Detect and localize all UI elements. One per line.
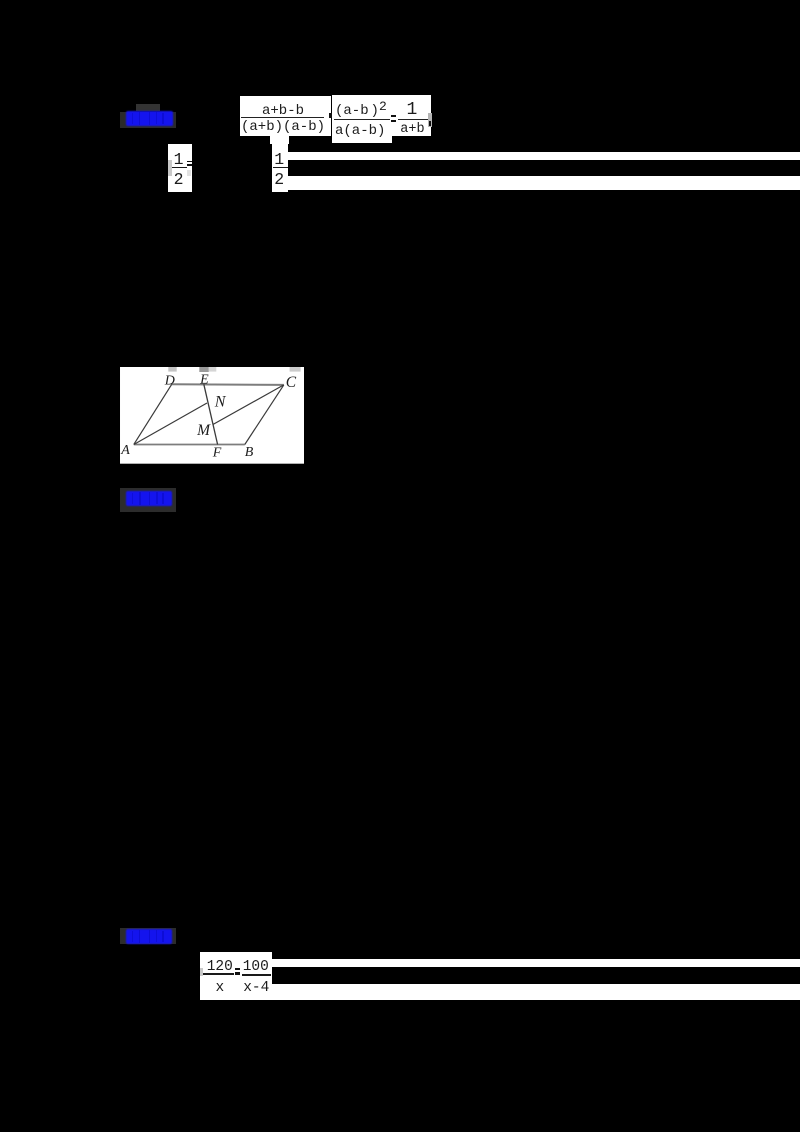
svg-text:C: C bbox=[285, 374, 296, 391]
svg-text:B: B bbox=[244, 445, 253, 460]
svg-text:M: M bbox=[196, 422, 211, 439]
svg-text:N: N bbox=[213, 394, 226, 411]
svg-text:F: F bbox=[211, 446, 221, 461]
svg-text:D: D bbox=[163, 374, 174, 389]
svg-text:A: A bbox=[120, 443, 130, 458]
svg-text:E: E bbox=[199, 373, 209, 388]
